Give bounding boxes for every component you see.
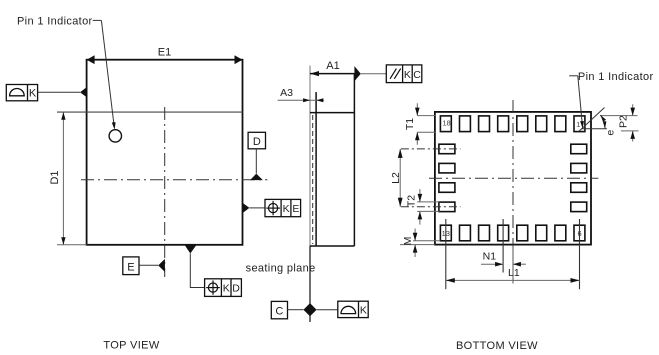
svg-text:L1: L1 bbox=[508, 267, 520, 279]
svg-text:L2: L2 bbox=[390, 172, 402, 184]
svg-text:K: K bbox=[283, 203, 290, 215]
svg-text:Pin 1 Indicator: Pin 1 Indicator bbox=[17, 16, 93, 28]
svg-text:C: C bbox=[275, 306, 283, 318]
svg-text:M: M bbox=[402, 237, 414, 246]
svg-text:A1: A1 bbox=[326, 60, 339, 72]
svg-text:N1: N1 bbox=[483, 251, 497, 263]
svg-text:K: K bbox=[360, 305, 367, 317]
svg-text:TOP VIEW: TOP VIEW bbox=[103, 339, 159, 351]
svg-text:A3: A3 bbox=[280, 87, 293, 99]
svg-text:D1: D1 bbox=[49, 170, 61, 184]
svg-text:1: 1 bbox=[576, 120, 580, 129]
svg-text:C: C bbox=[413, 69, 421, 81]
svg-text:D: D bbox=[232, 283, 240, 295]
svg-text:Pin 1 Indicator: Pin 1 Indicator bbox=[578, 71, 654, 83]
svg-text:18: 18 bbox=[442, 118, 450, 127]
svg-text:e: e bbox=[605, 130, 617, 136]
svg-text:E: E bbox=[127, 261, 134, 273]
svg-text:BOTTOM VIEW: BOTTOM VIEW bbox=[456, 340, 538, 352]
svg-text:E: E bbox=[292, 203, 299, 215]
svg-text:K: K bbox=[29, 88, 37, 100]
svg-text:seating plane: seating plane bbox=[246, 262, 316, 274]
svg-text:P2: P2 bbox=[618, 115, 630, 128]
svg-text:T1: T1 bbox=[404, 118, 416, 130]
svg-text:E1: E1 bbox=[158, 47, 171, 59]
svg-text:D: D bbox=[253, 136, 261, 148]
svg-text:K: K bbox=[223, 283, 230, 295]
svg-text:T2: T2 bbox=[406, 195, 418, 207]
svg-text:K: K bbox=[404, 69, 411, 81]
